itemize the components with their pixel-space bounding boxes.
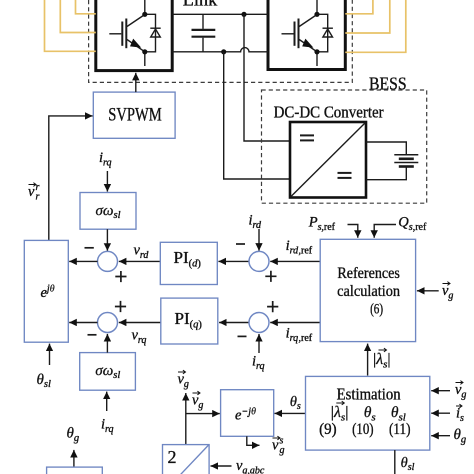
- wire lambda into refs: [367, 344, 369, 376]
- node P1: [142, 12, 147, 17]
- svg-text:sl: sl: [408, 462, 415, 473]
- svg-text:(10): (10): [352, 421, 374, 438]
- svg-text:s: s: [297, 401, 301, 412]
- wire thetasl to ejtheta: [49, 344, 51, 365]
- svg-text:rd: rd: [140, 250, 150, 261]
- PI(q) controller box: [161, 298, 218, 344]
- estimation box: [306, 376, 430, 450]
- battery BT1: [394, 155, 418, 167]
- node DC+ tap: [241, 12, 246, 17]
- svg-text:): ): [198, 319, 202, 330]
- sigma-omega-sl block 1: [80, 193, 136, 230]
- svg-text:References: References: [337, 265, 400, 282]
- svg-text:g: g: [74, 433, 79, 444]
- wire sum2 to ejtheta: [69, 322, 97, 324]
- wire grid phase c: [345, 0, 406, 52]
- diode D2: [317, 14, 333, 52]
- wire rotor phase c: [45, 0, 96, 51]
- wire PIq to sum2: [119, 322, 161, 324]
- svg-text:|: |: [373, 351, 376, 368]
- wire sum1 to ejtheta: [69, 260, 97, 262]
- svg-text:e: e: [235, 408, 242, 424]
- svg-text:P: P: [308, 215, 318, 231]
- wire e-jtheta output vgs: [247, 436, 260, 445]
- wire grid phase a: [345, 0, 373, 14]
- svg-text:,ref: ,ref: [299, 246, 313, 257]
- svg-text:PI: PI: [175, 309, 190, 328]
- references calculation box: [320, 239, 415, 341]
- svg-text:(9): (9): [319, 421, 337, 438]
- estimation theta_sl: [392, 406, 398, 417]
- svg-text:g: g: [461, 435, 466, 446]
- label theta_g left: [67, 427, 73, 438]
- DC-DC converter box U3: [290, 122, 366, 198]
- BESS dashed box: [262, 90, 427, 203]
- svg-text:(6): (6): [370, 301, 383, 317]
- wire PId to sum1: [119, 260, 161, 262]
- svg-text:g: g: [184, 379, 189, 390]
- svg-text:rq: rq: [256, 361, 265, 372]
- svg-text:rq: rq: [103, 158, 112, 169]
- wire Qs,ref into refs: [374, 225, 396, 238]
- wire sigma1 to sum1: [106, 229, 108, 251]
- svg-text:rq: rq: [138, 335, 147, 346]
- wire vg branch to e-jtheta: [186, 413, 220, 415]
- wire sum4 to PIq: [219, 322, 249, 324]
- IGBT Q1 rotor-side: [109, 0, 145, 66]
- minus sign sum1: [85, 247, 94, 249]
- label sigma-omega-sl 2: [96, 367, 103, 375]
- wire theta_g into estimation: [431, 435, 450, 437]
- summing junction sum3: [249, 251, 269, 271]
- SVPWM box: [93, 92, 175, 138]
- wire sigma2 to sum2: [106, 334, 108, 353]
- svg-text:(11): (11): [389, 421, 411, 438]
- svg-text:rd: rd: [253, 220, 263, 231]
- wire DC- to DC-DC converter: [224, 52, 290, 179]
- wire theta_g arrow: [73, 450, 75, 467]
- svg-text:DC-DC Converter: DC-DC Converter: [274, 102, 384, 121]
- wire grid phase b: [345, 0, 390, 33]
- svg-text:s: s: [460, 413, 464, 424]
- minus sign sum3: [236, 243, 245, 245]
- svg-text:g: g: [461, 390, 466, 401]
- wire vr to SVPWM: [49, 116, 93, 240]
- wire rotor phase a: [76, 0, 96, 14]
- wire ird to sum3: [258, 229, 260, 251]
- label sigma-omega-sl 1: [96, 207, 103, 215]
- e-jtheta rotation box: [221, 390, 274, 437]
- wire SVPWM gates to converter: [135, 73, 137, 92]
- svg-text:rq: rq: [105, 424, 114, 435]
- svg-text:PI: PI: [174, 248, 189, 267]
- svg-text:r: r: [36, 192, 40, 203]
- capacitor C dc-link: [192, 14, 216, 52]
- wire refs to sum4: [270, 322, 320, 324]
- PLL box clipped: [47, 467, 103, 474]
- plus sign sum4: [267, 301, 278, 312]
- wire sum3 to PId: [218, 260, 249, 262]
- svg-text:g: g: [198, 400, 203, 411]
- svg-text:Q: Q: [398, 215, 409, 231]
- plus sign sum2: [115, 301, 126, 312]
- minus sign sum4: [238, 335, 247, 337]
- abc-to-dq transform box 2: [163, 445, 210, 474]
- svg-text:sl: sl: [113, 370, 120, 381]
- converter dashed enclosure: [89, 0, 353, 82]
- label theta_sl bottom: [401, 457, 407, 467]
- svg-text:|: |: [345, 404, 348, 421]
- svg-text:sl: sl: [114, 210, 121, 221]
- wire Ps,ref into refs: [348, 225, 358, 238]
- summing junction sum4: [249, 313, 269, 333]
- wire DC bus positive: [172, 13, 268, 15]
- label theta_sl left: [37, 374, 43, 385]
- label theta_s: [291, 396, 297, 406]
- svg-text:Estimation: Estimation: [337, 384, 401, 403]
- svg-text:calculation: calculation: [337, 283, 400, 300]
- estimation theta_s: [365, 406, 371, 417]
- rotor-side converter box: [96, 0, 172, 71]
- sigma-omega-sl block 2: [80, 353, 136, 391]
- wire rotor phase b: [60, 0, 96, 33]
- wire DC bus negative with crossover hop: [172, 48, 268, 52]
- wire irq to sum4: [258, 334, 260, 353]
- IGBT Q2 grid-side: [282, 0, 318, 66]
- svg-text:,ref: ,ref: [413, 222, 427, 233]
- wire DC-DC to battery bottom: [366, 167, 406, 180]
- wire DC-DC to battery top: [366, 142, 406, 154]
- wire irq into sigma2: [106, 392, 108, 411]
- PI(d) controller box: [160, 242, 217, 284]
- svg-text:2: 2: [168, 447, 177, 467]
- node N2: [314, 49, 319, 54]
- wire vgabc into box2: [211, 465, 232, 467]
- summing junction sum2: [98, 313, 118, 333]
- svg-text:rq: rq: [290, 333, 299, 344]
- svg-text:|: |: [387, 351, 390, 368]
- svg-text:|: |: [331, 404, 334, 421]
- wire DC+ to DC-DC converter: [244, 14, 290, 141]
- minus sign sum2: [88, 334, 97, 336]
- wire theta_sl out bottom: [394, 450, 396, 474]
- svg-text:Link: Link: [183, 0, 218, 10]
- svg-text:g: g: [280, 445, 285, 456]
- plus sign sum1: [115, 271, 126, 282]
- wire irq into sigma1: [106, 171, 108, 192]
- label theta_g est: [454, 429, 460, 440]
- svg-text:SVPWM: SVPWM: [108, 104, 162, 125]
- wire refs to sum3: [270, 260, 320, 262]
- node P2: [314, 12, 319, 17]
- summing junction sum1: [98, 251, 118, 271]
- wire vg into refs: [417, 290, 439, 292]
- svg-text:sl: sl: [44, 379, 51, 390]
- plus sign sum3: [265, 271, 276, 282]
- svg-text:abc: abc: [250, 466, 265, 474]
- wire is into estimation: [431, 412, 450, 414]
- svg-text:,ref: ,ref: [299, 333, 313, 344]
- wire vg into estimation: [431, 390, 450, 392]
- node DC- tap: [221, 49, 226, 54]
- ejtheta rotation box: [24, 240, 68, 342]
- diode D1: [145, 14, 161, 52]
- svg-text:g: g: [448, 291, 453, 302]
- svg-text:,ref: ,ref: [321, 222, 335, 233]
- svg-text:): ): [197, 258, 201, 269]
- node N1: [142, 49, 147, 54]
- wire vg up: [185, 393, 187, 445]
- grid-side converter box: [268, 0, 345, 70]
- wire theta_s to e-jtheta: [275, 412, 306, 414]
